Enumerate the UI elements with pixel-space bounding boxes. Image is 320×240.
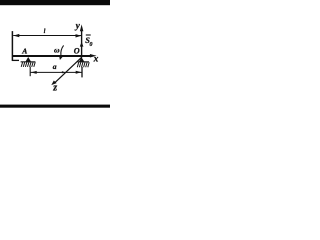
extension line below support O	[81, 67, 83, 77]
svg-text:y: y	[75, 21, 81, 31]
foot line at left end	[12, 59, 19, 61]
top black scan bar	[0, 0, 110, 5]
svg-text:a: a	[53, 62, 57, 71]
extension line below support A	[29, 67, 31, 77]
arrowhead at z-line crossing of dimension	[62, 71, 65, 73]
omega rotation arrow	[61, 45, 64, 55]
support O hatching	[77, 62, 89, 67]
support A triangle	[25, 57, 31, 62]
svg-text:O: O	[74, 46, 80, 55]
svg-text:ω: ω	[54, 46, 60, 55]
vector S0 arrowhead on y-axis	[80, 42, 84, 47]
svg-text:A: A	[21, 47, 27, 56]
support A hatching	[21, 62, 35, 67]
lower dimension left arrowhead	[31, 71, 37, 74]
svg-text:x: x	[93, 55, 99, 65]
dimension l left arrowhead	[13, 34, 19, 37]
lower dimension line a	[31, 71, 82, 73]
rod / beam along x-axis	[12, 55, 91, 57]
extension line at left rod end	[11, 31, 13, 61]
bottom black scan bar	[0, 105, 110, 108]
support A ground line	[21, 61, 36, 63]
svg-text:z: z	[52, 83, 57, 94]
x-axis arrowhead	[90, 54, 97, 58]
y-axis	[81, 31, 83, 57]
dimension line l	[13, 35, 81, 37]
z-axis	[55, 57, 82, 83]
lower dimension right arrowhead	[76, 71, 82, 74]
support O ground line	[78, 61, 90, 63]
z-axis arrowhead	[51, 81, 56, 86]
svg-text:0: 0	[90, 42, 93, 48]
support O triangle	[79, 57, 85, 61]
label S0 overbar	[86, 34, 91, 36]
dimension l right arrowhead	[76, 34, 82, 37]
